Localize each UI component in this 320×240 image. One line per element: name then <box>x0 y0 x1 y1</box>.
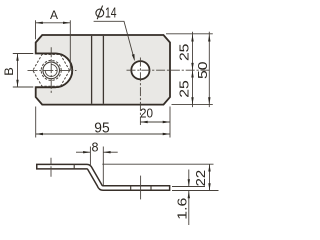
8 dim line right tail <box>103 151 117 153</box>
hole centerline vertical <box>139 58 141 126</box>
hex centerline horizontal <box>28 69 77 71</box>
svg-text:8: 8 <box>92 140 99 154</box>
bend line left <box>91 36 93 104</box>
svg-text:50: 50 <box>196 61 210 79</box>
22 arrow bottom <box>208 183 210 190</box>
dim line 25/25 <box>192 32 194 107</box>
B arrow bottom <box>16 80 18 87</box>
95 arrow right <box>163 133 170 135</box>
svg-text:25: 25 <box>177 43 191 61</box>
1.6 arrow up <box>188 191 190 198</box>
20 arrow left <box>140 121 147 123</box>
svg-text:25: 25 <box>177 80 191 98</box>
hole centerline horizontal <box>127 69 210 71</box>
8 dim line left tail <box>76 151 90 153</box>
A ext line right <box>69 20 71 70</box>
phi symbol of hole label <box>96 6 104 20</box>
50 arrow bottom <box>208 97 210 104</box>
dim line 95 <box>36 133 170 135</box>
20 arrow right <box>163 121 170 123</box>
side view strip dark <box>36 167 170 188</box>
8 arrow left <box>83 151 90 153</box>
bend line right <box>102 36 104 104</box>
B ext line bottom <box>13 86 34 88</box>
25 arrow top <box>191 34 193 41</box>
8 ext line right <box>102 147 104 186</box>
side view strip white core <box>38 167 169 188</box>
dimension A line <box>36 22 71 24</box>
hole edge ticks in side view <box>130 186 132 190</box>
ext line 20/95 right <box>169 107 171 138</box>
svg-text:A: A <box>50 8 58 22</box>
dim line 22 <box>209 164 211 190</box>
side view hole centerline <box>140 176 142 200</box>
strip bottom surface ext <box>172 190 219 192</box>
svg-text:1.6: 1.6 <box>175 198 190 220</box>
22 ext line top <box>102 163 213 165</box>
25 arrow bottom <box>191 97 193 104</box>
22 arrow top <box>208 164 210 171</box>
1.6 lower pointer line <box>188 191 190 226</box>
B ext line top <box>13 53 34 55</box>
50 arrow top <box>208 34 210 41</box>
dim line 20 <box>140 121 170 123</box>
1.6 upper pointer line <box>188 170 190 187</box>
slot (notch) interior <box>36 54 73 88</box>
A arrow left <box>36 22 43 24</box>
8 ext line left <box>89 147 91 167</box>
hole 14 <box>131 61 149 79</box>
thread arc 3/4 <box>45 64 57 76</box>
hex nut hidden outline (dashed) <box>33 55 70 87</box>
leader line to hole <box>94 21 135 59</box>
nut flats circle (dashed) <box>41 60 61 80</box>
leader arrow <box>132 54 135 61</box>
strip top surface ext <box>172 186 205 188</box>
svg-text:14: 14 <box>105 4 117 21</box>
svg-text:22: 22 <box>194 170 208 187</box>
svg-text:B: B <box>2 67 16 76</box>
plate outline (top view) <box>36 35 170 105</box>
slot edge tick in side view <box>73 164 75 169</box>
svg-text:95: 95 <box>94 121 109 137</box>
hole circle in slot (solid) <box>43 62 60 79</box>
25 arrows middle <box>191 63 193 70</box>
1.6 arrow down <box>188 179 190 186</box>
right ext line top <box>166 33 213 35</box>
slot outline <box>36 54 73 88</box>
hex centerline in side view <box>50 158 52 177</box>
svg-text:20: 20 <box>140 107 153 121</box>
hex centerline vertical <box>50 47 52 93</box>
right ext line bottom <box>172 104 213 106</box>
A arrow right <box>63 22 70 24</box>
B arrow top <box>16 54 18 61</box>
8 arrow right <box>103 151 110 153</box>
95 arrow left <box>36 133 43 135</box>
ext line 95 left <box>35 107 37 138</box>
dim line 50 <box>208 32 210 107</box>
A ext line left <box>35 20 37 39</box>
dimension B line <box>17 54 19 88</box>
